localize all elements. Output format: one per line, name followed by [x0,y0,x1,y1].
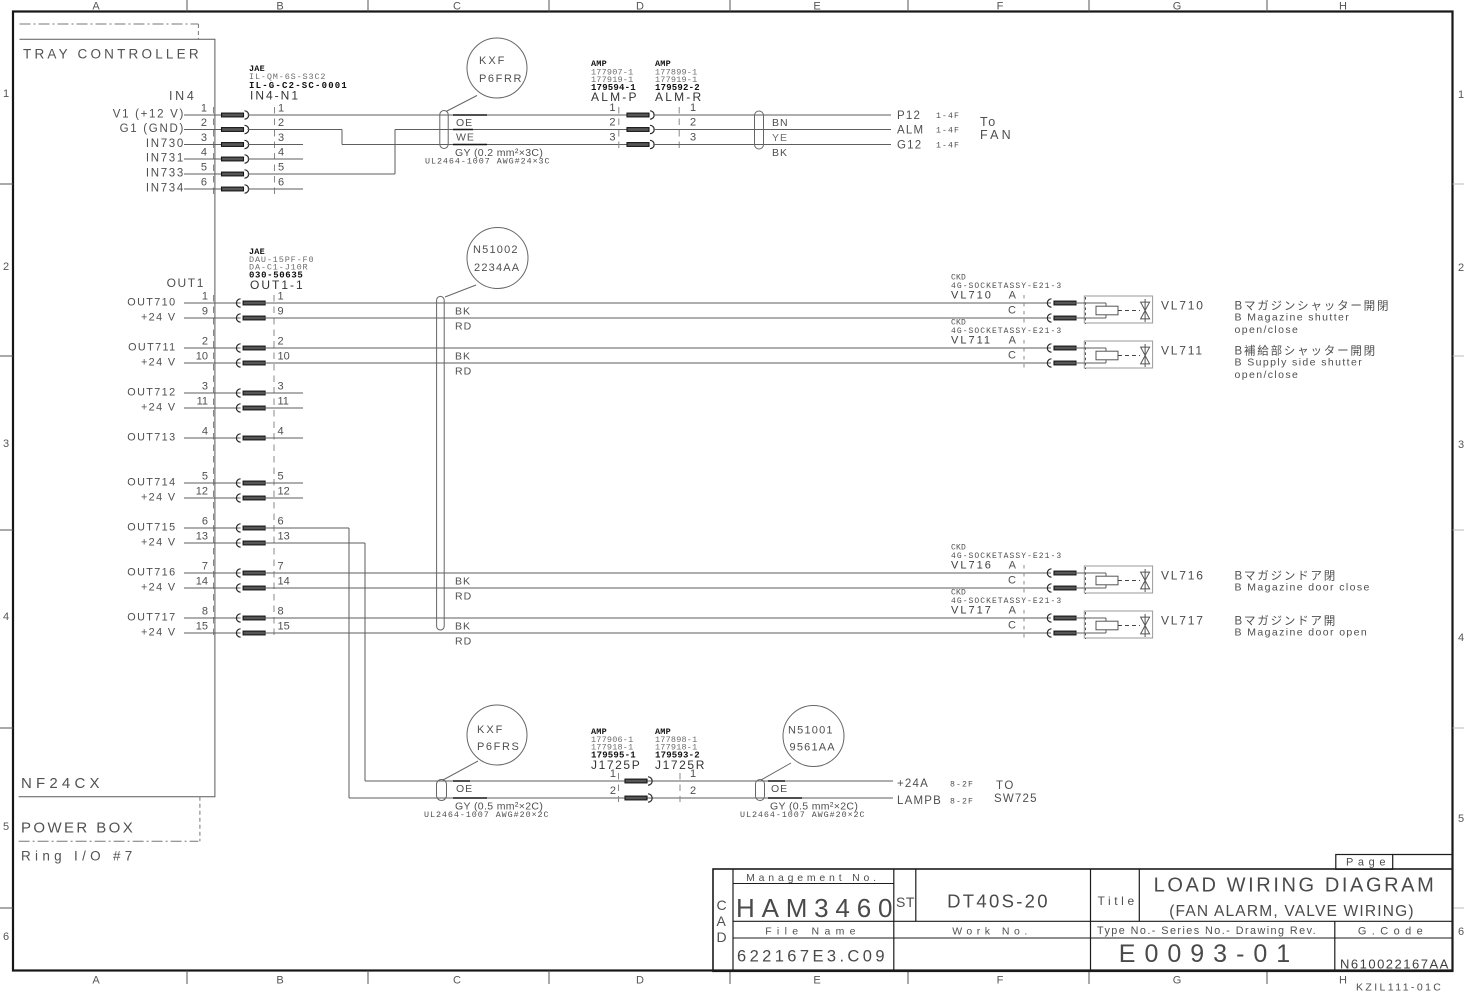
wire OUT1 pin 3 stub [264,392,303,394]
svg-text:VL711: VL711 [951,334,992,346]
contact IN4 pin 6 [222,187,244,191]
svg-text:POWER BOX: POWER BOX [21,820,135,837]
svg-text:7: 7 [278,561,284,573]
svg-text:1: 1 [201,103,207,115]
svg-text:IN731: IN731 [146,153,185,165]
svg-text:1-4F: 1-4F [936,112,960,121]
svg-text:RD: RD [455,636,472,648]
svg-text:HAM3460: HAM3460 [736,893,899,923]
contact J1725P pin 2 [625,796,647,800]
svg-text:10: 10 [196,351,208,363]
contact VL716 C [1047,584,1051,592]
svg-text:OUT714: OUT714 [127,477,176,489]
svg-text:OUT712: OUT712 [127,387,176,399]
node POWER BOX boundary [19,840,199,842]
svg-text:4: 4 [202,426,208,438]
wire ALM-R pin 2 to fan [653,129,891,131]
contact OUT1 pin 1 [236,299,240,307]
wire OUT1 pin 9 lead [184,317,241,319]
solenoid valve VL716 [1084,566,1152,593]
svg-text:B Magazine door close: B Magazine door close [1235,582,1371,594]
svg-text:VL710: VL710 [951,289,993,301]
svg-text:9561AA: 9561AA [790,742,836,754]
svg-text:3: 3 [278,132,284,144]
balloon KXF P6FRS cable spec [467,705,527,765]
svg-text:4: 4 [201,147,207,159]
svg-text:11: 11 [278,396,289,408]
svg-text:1: 1 [610,768,616,780]
wire OUT1 pin 13 lead [184,542,241,544]
svg-text:1: 1 [278,291,284,303]
label wire OE lamp left [453,780,470,782]
svg-text:A: A [1009,289,1017,301]
svg-text:N51002: N51002 [473,244,519,256]
svg-text:A: A [717,913,727,929]
svg-text:BK: BK [455,621,471,633]
svg-text:15: 15 [278,621,290,633]
connector IN4-N1 boundary dashed [274,107,276,196]
wire OUT1 pin 2 lead [184,347,241,349]
wire OUT1 pin 8 to valve [264,617,1051,619]
svg-text:1-4F: 1-4F [936,142,960,151]
svg-text:KZIL111-01C: KZIL111-01C [1356,982,1443,992]
svg-text:UL2464-1007 AWG#24×3C: UL2464-1007 AWG#24×3C [425,157,551,167]
wire IN4 pin 4 lead [184,158,221,160]
svg-text:V1 (+12 V): V1 (+12 V) [113,109,185,121]
svg-text:RD: RD [455,591,472,603]
svg-text:+24A: +24A [897,778,929,790]
contact IN4 pin 4 [222,157,244,161]
svg-text:DT40S-20: DT40S-20 [947,891,1050,912]
label cable GY 0.5mm x2C left [453,797,487,799]
svg-text:To: To [980,115,997,129]
cable marker oval fan cable [440,111,448,149]
svg-text:1-4F: 1-4F [936,127,960,136]
svg-text:1: 1 [1458,89,1464,101]
wire LAMPB run [349,797,893,799]
cable marker oval fan side [755,111,764,149]
svg-text:Management No.: Management No. [746,872,880,884]
label wire OE [453,114,487,116]
svg-text:Type No.- Series No.- Drawing: Type No.- Series No.- Drawing Rev. [1097,925,1317,937]
connector OUT1-1 boundary dashed [273,295,275,640]
svg-text:8: 8 [202,606,208,618]
svg-text:IN4-N1: IN4-N1 [250,89,300,103]
svg-text:2: 2 [278,336,284,348]
wire V1 +12V to ALM-P pin1 [248,114,627,116]
wire IN4 pin 2 lead [184,129,221,131]
svg-text:IN730: IN730 [146,138,185,150]
svg-text:OE: OE [456,783,473,795]
svg-text:1: 1 [278,103,284,115]
tray controller box [19,39,215,797]
svg-text:BK: BK [455,351,471,363]
contact ALM-P pin 2 [627,128,649,132]
svg-text:1: 1 [690,768,696,780]
svg-text:+24 V: +24 V [141,627,177,639]
svg-text:BK: BK [772,147,788,159]
svg-text:open/close: open/close [1235,324,1300,336]
svg-text:5: 5 [3,821,9,833]
svg-text:TRAY CONTROLLER: TRAY CONTROLLER [23,47,202,62]
wire IN733 to ALM-P pin2 with jog [248,173,395,175]
wire OUT1 pin 7 lead [184,572,241,574]
svg-text:WE: WE [456,132,475,144]
svg-text:F: F [997,975,1004,987]
svg-text:Title: Title [1098,894,1138,908]
svg-text:OUT1: OUT1 [167,276,205,290]
svg-text:B Magazine door open: B Magazine door open [1235,627,1369,639]
svg-text:RD: RD [455,366,472,378]
svg-text:8-2F: 8-2F [950,798,974,807]
contact OUT1 pin 4 [236,434,240,442]
wire OUT1 pin 10 to valve [264,362,1051,364]
wire OUT1 pin 1 to valve [264,302,1051,304]
wire OUT1 pin 11 lead [184,407,241,409]
svg-text:VL717: VL717 [951,604,993,616]
svg-text:TO: TO [996,780,1015,792]
wire OUT1 pin 2 to valve [264,347,1051,349]
contact VL711 A [1047,344,1051,352]
svg-text:1: 1 [609,102,615,114]
svg-text:C: C [1008,620,1016,632]
svg-text:6: 6 [202,516,208,528]
svg-text:A: A [1009,334,1017,346]
wire +24A run [365,780,893,782]
svg-text:E: E [813,1,820,13]
wire OUT1 pin 14 to valve [264,587,1051,589]
wire IN4 pin 6 lead [184,188,221,190]
svg-text:C: C [1008,305,1016,317]
svg-text:2: 2 [3,261,9,273]
svg-text:G: G [1173,1,1182,13]
connector VL716 boundary dashed [1023,565,1025,596]
contact IN4 pin 5 [222,172,244,176]
connector OUT1 boundary dashed [213,295,215,640]
svg-text:4: 4 [1458,632,1464,644]
svg-text:E0093-01: E0093-01 [1119,940,1299,968]
node Ring I/O boundary chain line top [20,23,199,25]
svg-text:BK: BK [455,576,471,588]
svg-text:P6FRS: P6FRS [477,741,520,753]
svg-text:15: 15 [196,621,208,633]
contact OUT1 pin 5 [236,479,240,487]
svg-text:Page: Page [1346,857,1390,869]
wire OUT1 pin 5 stub [264,482,303,484]
contact OUT1 pin 6 [236,524,240,532]
svg-text:B Magazine shutter: B Magazine shutter [1235,312,1351,324]
wire ALM-R pin 1 to fan [653,114,891,116]
svg-text:H: H [1339,975,1347,987]
svg-text:OUT716: OUT716 [127,567,176,579]
wire IN4 pin 1 lead [184,114,221,116]
svg-text:1: 1 [202,291,208,303]
svg-text:BK: BK [455,306,471,318]
connector ALM-R boundary dashed [678,107,680,151]
svg-text:6: 6 [201,177,207,189]
svg-text:VL711: VL711 [1161,344,1204,358]
svg-text:OE: OE [771,783,788,795]
contact OUT1 pin 3 [236,389,240,397]
wire IN4 pin 4 stub [248,158,303,160]
svg-text:622167E3.C09: 622167E3.C09 [737,948,888,966]
svg-text:5: 5 [278,471,284,483]
contact OUT1 pin 15 [236,629,240,637]
svg-text:8-2F: 8-2F [950,781,974,790]
svg-text:1: 1 [690,102,696,114]
svg-text:2: 2 [690,117,696,129]
svg-text:3: 3 [278,381,284,393]
svg-text:IN733: IN733 [146,168,185,180]
svg-text:13: 13 [196,531,208,543]
label cable GY 0.5mm x2C right [768,797,802,799]
svg-text:G1 (GND): G1 (GND) [120,123,185,135]
svg-text:OUT717: OUT717 [127,612,176,624]
svg-text:KXF: KXF [479,55,506,67]
contact IN4 pin 1 [222,113,244,117]
svg-text:open/close: open/close [1235,369,1300,381]
wire OUT1 pin 12 lead [184,497,241,499]
connector J1725P boundary dashed [618,773,620,802]
svg-text:14: 14 [196,576,208,588]
svg-text:J1725P: J1725P [591,758,641,772]
svg-text:3: 3 [690,132,696,144]
connector VL711 boundary dashed [1023,340,1025,371]
svg-text:2: 2 [278,117,284,129]
svg-text:2: 2 [609,117,615,129]
svg-text:3: 3 [3,438,9,450]
svg-text:(FAN ALARM, VALVE WIRING): (FAN ALARM, VALVE WIRING) [1169,903,1415,920]
svg-text:+24 V: +24 V [141,312,177,324]
solenoid valve VL717 [1084,611,1152,638]
svg-text:Work No.: Work No. [952,926,1032,938]
svg-text:+24 V: +24 V [141,357,177,369]
svg-text:OUT715: OUT715 [127,522,176,534]
svg-text:6: 6 [278,516,284,528]
cable marker long capsule valve cable [437,296,445,630]
svg-text:3: 3 [609,132,615,144]
svg-text:5: 5 [1458,813,1464,825]
connector VL717 boundary dashed [1023,610,1025,641]
svg-text:3: 3 [202,381,208,393]
svg-text:YE: YE [772,132,788,144]
svg-text:+24 V: +24 V [141,537,177,549]
svg-text:12: 12 [278,486,290,498]
wire OUT1 pin 1 lead [184,302,241,304]
wire OUT1 pin 9 to valve [264,317,1051,319]
svg-text:P12: P12 [897,110,921,122]
wire OUT1 pin 15 lead [184,632,241,634]
wire G1 GND to ALM-P pin3 with jog [248,129,342,131]
svg-text:12: 12 [196,486,208,498]
svg-text:A: A [1009,559,1017,571]
svg-text:11: 11 [197,396,208,408]
label cable GY 0.2mm x3C [453,144,487,146]
svg-text:2: 2 [201,117,207,129]
contact VL717 C [1047,629,1051,637]
svg-text:D: D [636,975,644,987]
svg-text:4: 4 [278,147,284,159]
svg-text:OE: OE [456,117,473,129]
svg-text:+24 V: +24 V [141,402,177,414]
connector IN4 boundary dashed [213,107,215,196]
svg-text:5: 5 [202,471,208,483]
svg-text:FAN: FAN [980,128,1014,142]
wire OUT1 pin 6 lead [184,527,241,529]
svg-text:B: B [276,975,283,987]
svg-text:2: 2 [1458,262,1464,274]
svg-text:5: 5 [201,162,207,174]
svg-text:OUT710: OUT710 [127,297,176,309]
svg-text:J1725R: J1725R [655,758,706,772]
title block frame [713,869,1453,971]
contact ALM-P pin 3 [627,143,649,147]
wire OUT1 pin 14 lead [184,587,241,589]
svg-text:A: A [92,1,100,13]
wire OUT1 pin 8 lead [184,617,241,619]
svg-text:6: 6 [1458,926,1464,938]
svg-text:OUT713: OUT713 [127,432,176,444]
contact VL711 C [1047,359,1051,367]
wire IN4 pin 6 stub [248,188,303,190]
wire OUT1 pin 12 stub [264,497,303,499]
contact OUT1 pin 9 [236,314,240,322]
svg-text:4: 4 [278,426,284,438]
contact OUT1 pin 2 [236,344,240,352]
svg-text:3: 3 [1458,439,1464,451]
wire OUT1 pin 3 lead [184,392,241,394]
cable marker oval lamp cable right [756,780,765,801]
svg-text:G: G [1173,975,1182,987]
svg-text:1: 1 [3,88,9,100]
svg-text:D: D [717,929,727,945]
svg-text:8: 8 [278,606,284,618]
wire OUT1 pin 15 to valve [264,632,1051,634]
svg-text:+24 V: +24 V [141,582,177,594]
svg-text:P6FRR: P6FRR [479,73,523,85]
wire OUT1 pin 7 to valve [264,572,1051,574]
wire OUT1 pin 10 lead [184,362,241,364]
contact VL710 C [1047,314,1051,322]
wire OUT1 pin 4 lead [184,437,241,439]
contact VL717 A [1047,614,1051,622]
solenoid valve VL711 [1084,341,1152,368]
balloon N51001 9561AA cable spec [783,706,844,767]
svg-text:C: C [1008,350,1016,362]
wire OUT1 pin 4 stub [264,437,303,439]
label wire OE lamp right [768,780,785,782]
wire OUT1 pin 11 stub [264,407,303,409]
title block Page box [1336,855,1393,870]
connector ALM-P boundary dashed [618,107,620,151]
svg-text:IN734: IN734 [146,183,185,195]
wire IN4 pin 3 stub [248,144,303,146]
wire OUT715 to LAMPB [264,527,349,529]
wire OUT1 pin 5 lead [184,482,241,484]
balloon KXF P6FRR cable spec [467,38,527,98]
svg-text:NF24CX: NF24CX [21,775,104,792]
svg-text:ST: ST [896,894,915,910]
svg-text:14: 14 [278,576,290,588]
svg-text:2: 2 [690,785,696,797]
svg-text:3: 3 [201,132,207,144]
connector J1725R boundary dashed [679,773,681,802]
contact OUT1 pin 10 [236,359,240,367]
svg-text:13: 13 [278,531,290,543]
svg-text:B補給部シャッター開閉: B補給部シャッター開閉 [1235,344,1377,358]
contact VL710 A [1047,299,1051,307]
svg-text:G.Code: G.Code [1358,926,1428,938]
svg-text:2: 2 [610,785,616,797]
contact IN4 pin 2 [222,128,244,132]
contact J1725P pin 1 [625,779,647,783]
svg-text:RD: RD [455,321,472,333]
svg-text:E: E [813,975,820,987]
svg-text:OUT711: OUT711 [128,342,176,354]
svg-text:VL717: VL717 [1161,614,1205,628]
svg-text:UL2464-1007 AWG#20×2C: UL2464-1007 AWG#20×2C [740,810,866,820]
svg-text:7: 7 [202,561,208,573]
svg-text:C: C [717,897,727,913]
svg-text:2234AA: 2234AA [474,262,520,274]
svg-text:LAMPB: LAMPB [897,795,942,807]
svg-text:VL716: VL716 [951,559,993,571]
svg-text:+24 V: +24 V [141,492,177,504]
svg-text:SW725: SW725 [994,793,1038,805]
svg-text:H: H [1339,1,1347,13]
svg-text:6: 6 [3,931,9,943]
connector VL710 boundary dashed [1023,295,1025,326]
svg-text:VL716: VL716 [1161,569,1205,583]
svg-text:UL2464-1007 AWG#20×2C: UL2464-1007 AWG#20×2C [424,810,550,820]
cable marker oval lamp cable left [437,780,447,801]
svg-text:IN4: IN4 [169,89,197,103]
svg-text:A: A [1009,604,1017,616]
svg-text:B: B [276,1,283,13]
wire +24V pin13 to +24A [264,542,365,544]
svg-text:N610022167AA: N610022167AA [1340,957,1450,972]
svg-text:KXF: KXF [477,724,504,736]
svg-text:2: 2 [202,336,208,348]
contact OUT1 pin 13 [236,539,240,547]
svg-text:D: D [636,1,644,13]
svg-text:C: C [453,975,461,987]
solenoid valve VL710 [1084,296,1152,323]
contact OUT1 pin 14 [236,584,240,592]
wire IN4 pin 3 lead [184,144,221,146]
wire IN4 pin 5 lead [184,173,221,175]
contact VL716 A [1047,569,1051,577]
svg-text:N51001: N51001 [788,725,834,737]
svg-text:6: 6 [278,177,284,189]
svg-text:Ring I/O #7: Ring I/O #7 [21,849,137,864]
svg-text:9: 9 [278,306,284,318]
svg-text:A: A [92,975,100,987]
wire ALM-R pin 3 to fan [653,144,891,146]
svg-text:VL710: VL710 [1161,299,1205,313]
svg-text:LOAD WIRING DIAGRAM: LOAD WIRING DIAGRAM [1154,875,1437,897]
svg-text:4: 4 [3,611,9,623]
balloon N51002 2234AA cable spec [467,228,528,289]
svg-text:C: C [1008,575,1016,587]
svg-text:B Supply side shutter: B Supply side shutter [1235,357,1364,369]
label wire WE [453,129,473,131]
contact OUT1 pin 7 [236,569,240,577]
svg-text:File Name: File Name [765,926,861,938]
svg-text:5: 5 [278,162,284,174]
svg-text:F: F [997,1,1004,13]
contact OUT1 pin 8 [236,614,240,622]
